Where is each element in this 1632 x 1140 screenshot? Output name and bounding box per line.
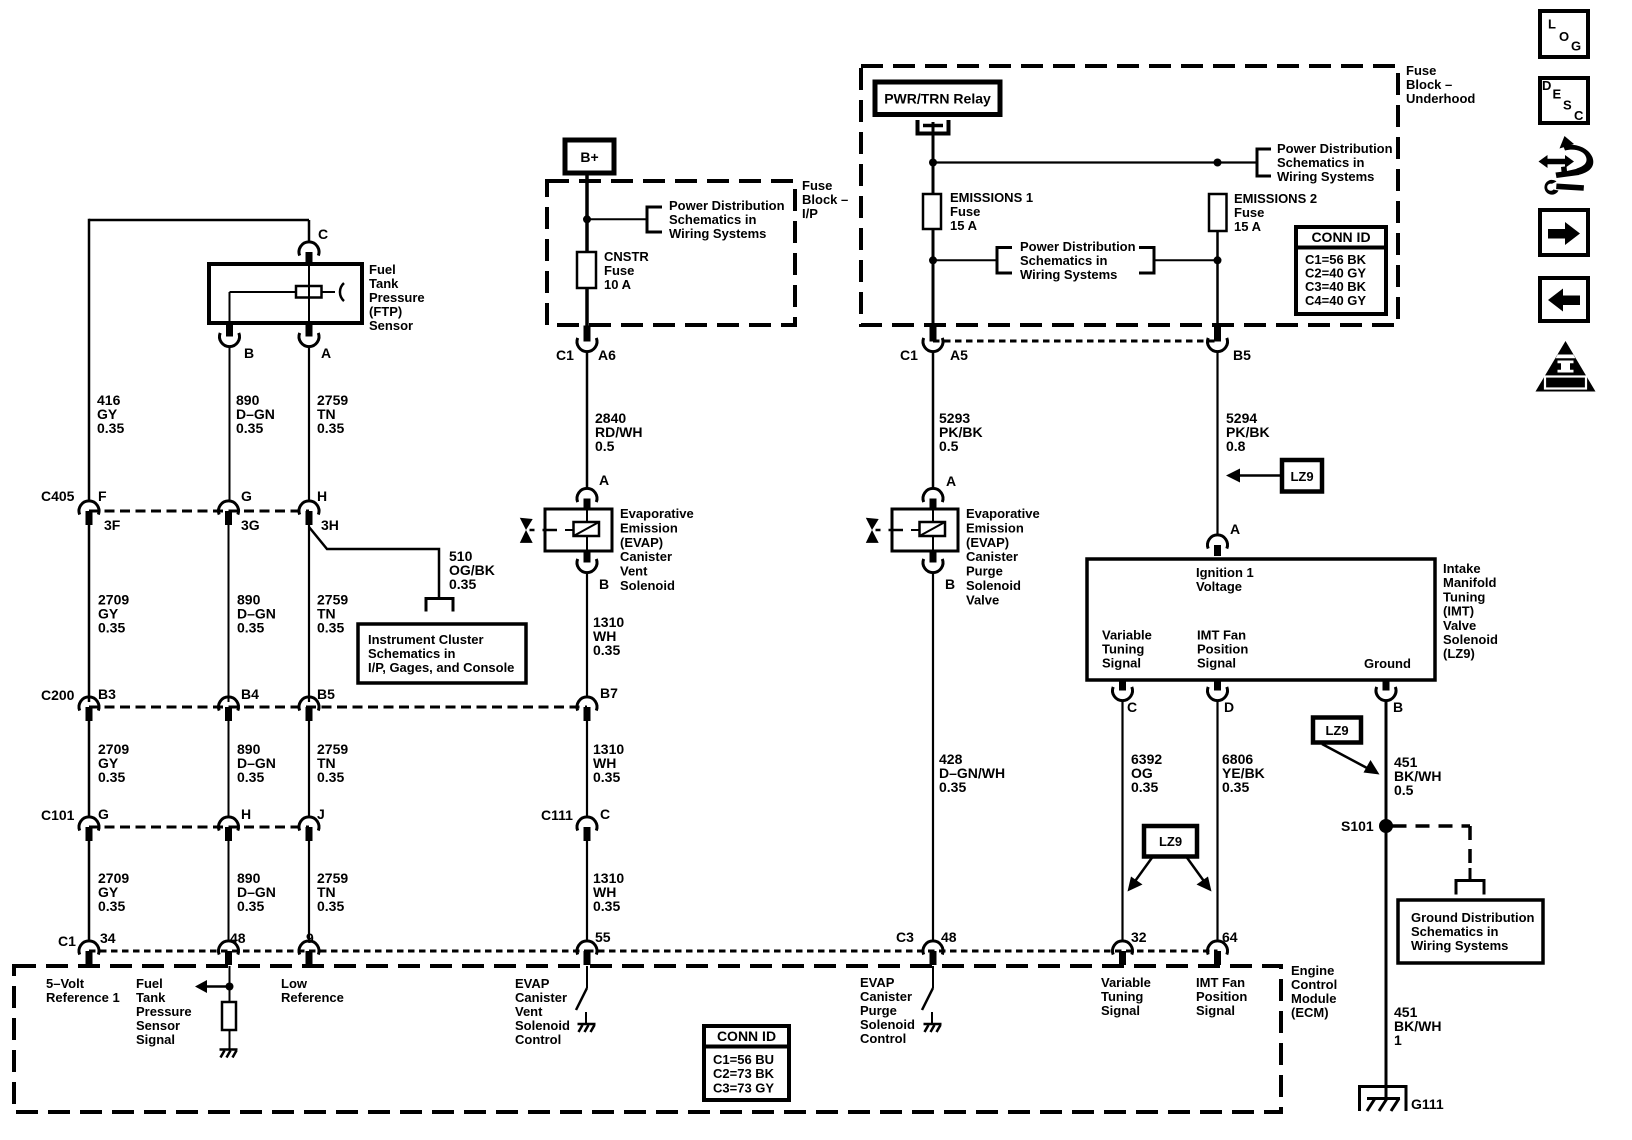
svg-text:EVAP: EVAP [515, 976, 550, 991]
wire 416 GY left vertical [88, 219, 91, 501]
svg-text:Canister: Canister [515, 990, 567, 1005]
svg-text:C200: C200 [41, 687, 75, 703]
svg-text:Solenoid: Solenoid [1443, 632, 1498, 647]
svg-text:Fuse: Fuse [802, 178, 832, 193]
icon LOG [1540, 11, 1588, 57]
wire 2759 TN row3 [308, 721, 310, 817]
power distribution bracket mid right [1139, 248, 1154, 274]
wire 890 D-GN from pin B [229, 346, 231, 501]
svg-text:Engine: Engine [1291, 963, 1334, 978]
node G connector [219, 501, 239, 515]
wire 1310 WH row3 [586, 841, 588, 941]
svg-text:0.35: 0.35 [237, 898, 264, 914]
wire 416 GY top horizontal segment [89, 219, 309, 222]
svg-text:EMISSIONS 1: EMISSIONS 1 [950, 190, 1033, 205]
vent control ground [578, 1023, 596, 1026]
svg-text:Solenoid: Solenoid [860, 1017, 915, 1032]
vent control switch [586, 966, 588, 988]
svg-text:Control: Control [515, 1032, 561, 1047]
svg-text:9: 9 [306, 930, 314, 946]
svg-text:Vent: Vent [515, 1004, 543, 1019]
FTP sensor wiper contact arc [340, 283, 344, 301]
node D connector IMT [1208, 687, 1228, 701]
svg-text:B7: B7 [600, 685, 618, 701]
wire CNSTR fuse to connector [585, 288, 589, 327]
CONN ID table underhood [1296, 227, 1386, 314]
svg-text:OBD II: OBD II [1549, 378, 1581, 390]
svg-text:A: A [599, 472, 609, 488]
svg-text:Tuning: Tuning [1101, 989, 1143, 1004]
svg-text:Wiring Systems: Wiring Systems [1277, 169, 1374, 184]
svg-text:H: H [317, 488, 327, 504]
svg-text:B3: B3 [98, 686, 116, 702]
icon arrow left [1540, 278, 1588, 321]
svg-text:C3: C3 [896, 929, 914, 945]
node B4 connector [218, 697, 238, 711]
EVAP vent valve symbol [520, 518, 533, 530]
ground distribution note box [1398, 900, 1543, 963]
wire relay to emissions1 [932, 122, 935, 194]
wire 2759 TN from pin A [308, 346, 310, 501]
wire 2759 TN row2 [308, 525, 310, 702]
FTP sensor box [209, 264, 362, 323]
LZ9 arrow right mid [1187, 857, 1207, 884]
svg-text:(EVAP): (EVAP) [620, 535, 663, 550]
node junction B+ distribution [583, 215, 591, 223]
connector C1 dotted line [89, 950, 587, 953]
svg-text:Variable: Variable [1101, 975, 1151, 990]
svg-text:Wiring Systems: Wiring Systems [1020, 267, 1117, 282]
svg-text:Schematics in: Schematics in [1020, 253, 1107, 268]
node C1/A5 connector [923, 338, 943, 352]
LZ9 callout box mid [1144, 826, 1197, 857]
svg-text:B: B [599, 576, 609, 592]
svg-text:0.35: 0.35 [237, 769, 264, 785]
wire 2840 RD/WH [586, 351, 589, 488]
node junction power distribution mid [929, 256, 937, 264]
svg-text:C: C [1574, 108, 1584, 123]
svg-text:34: 34 [100, 930, 116, 946]
ECM dashed box [14, 966, 1281, 1112]
svg-text:Reference: Reference [281, 990, 344, 1005]
power distribution bracket mid left [997, 248, 1012, 274]
svg-text:Block –: Block – [802, 192, 848, 207]
node B5 connector [299, 697, 319, 711]
svg-text:Emission: Emission [966, 520, 1024, 535]
svg-text:A6: A6 [598, 347, 616, 363]
svg-text:Ignition 1: Ignition 1 [1196, 565, 1254, 580]
node 34 connector [79, 941, 99, 955]
svg-text:Control: Control [1291, 977, 1337, 992]
svg-text:Signal: Signal [1197, 656, 1236, 671]
svg-text:LZ9: LZ9 [1290, 469, 1313, 484]
svg-text:Signal: Signal [1196, 1003, 1235, 1018]
svg-text:0.35: 0.35 [1131, 779, 1158, 795]
svg-text:Power Distribution: Power Distribution [1020, 239, 1136, 254]
purge control ground [924, 1023, 942, 1026]
svg-text:Schematics in: Schematics in [669, 212, 756, 227]
svg-text:Vent: Vent [620, 564, 648, 579]
svg-text:Power Distribution: Power Distribution [1277, 141, 1393, 156]
fuse block I/P dashed box [547, 181, 795, 325]
node C111 connector [577, 817, 597, 831]
S101 dashed branch [1393, 824, 1471, 828]
svg-text:Evaporative: Evaporative [966, 506, 1040, 521]
svg-text:0.35: 0.35 [317, 619, 344, 635]
svg-text:0.35: 0.35 [317, 420, 344, 436]
node C1/A6 connector [577, 338, 597, 352]
svg-text:A5: A5 [950, 347, 968, 363]
node B7 connector [577, 697, 597, 711]
svg-text:0.5: 0.5 [595, 438, 615, 454]
node S101 [1379, 819, 1393, 833]
svg-text:D: D [1542, 78, 1551, 93]
svg-text:LZ9: LZ9 [1159, 834, 1182, 849]
node C connector IMT [1113, 687, 1133, 701]
icon OBD II triangle [1536, 341, 1596, 392]
EMISSIONS 1 fuse [923, 194, 941, 229]
connector C200 dashed line [89, 706, 587, 709]
svg-text:Canister: Canister [860, 989, 912, 1004]
svg-text:Fuse: Fuse [1406, 63, 1436, 78]
icon arrow right [1540, 210, 1588, 255]
svg-text:A: A [321, 345, 331, 361]
svg-text:Instrument Cluster: Instrument Cluster [368, 632, 484, 647]
svg-text:3F: 3F [104, 517, 121, 533]
power distribution bracket underhood top [1257, 149, 1271, 176]
svg-text:C2=73 BK: C2=73 BK [713, 1066, 775, 1081]
svg-text:B4: B4 [241, 686, 259, 702]
svg-text:0.35: 0.35 [593, 898, 620, 914]
svg-text:Signal: Signal [136, 1032, 175, 1047]
wire 890 D-GN row3 [228, 721, 230, 817]
ground G111 symbol [1360, 1087, 1407, 1112]
svg-text:G: G [98, 806, 109, 822]
svg-text:0.35: 0.35 [1222, 779, 1249, 795]
svg-text:E: E [1553, 87, 1562, 102]
LZ9 arrow left mid [1133, 857, 1153, 884]
svg-text:(FTP): (FTP) [369, 304, 402, 319]
wire 2709 GY row2 [88, 525, 91, 702]
LZ9 callout box right [1282, 460, 1322, 492]
node H connector [299, 501, 319, 515]
svg-text:Valve: Valve [966, 592, 999, 607]
connector row A5-B5 dotted line [933, 340, 1218, 343]
wire emissions1 to connector [932, 229, 935, 327]
svg-text:0.35: 0.35 [237, 619, 264, 635]
svg-text:Schematics in: Schematics in [1411, 924, 1498, 939]
node A connector IMT [1208, 535, 1228, 549]
svg-text:B: B [1393, 699, 1403, 715]
node B5u connector [1208, 338, 1228, 352]
svg-text:0.35: 0.35 [98, 769, 125, 785]
svg-text:0.8: 0.8 [1226, 438, 1246, 454]
svg-text:0.35: 0.35 [98, 898, 125, 914]
wire 6806 YE/BK [1216, 700, 1218, 941]
svg-text:CONN ID: CONN ID [717, 1028, 776, 1044]
node 64 connector [1208, 941, 1228, 955]
wire 890 D-GN row2 [228, 525, 230, 702]
svg-text:Control: Control [860, 1031, 906, 1046]
svg-text:H: H [241, 806, 251, 822]
svg-text:G: G [241, 488, 252, 504]
wire to power distribution bracket [587, 218, 647, 220]
svg-text:B+: B+ [580, 149, 598, 165]
FTP signal arrow [205, 985, 230, 988]
svg-text:EMISSIONS 2: EMISSIONS 2 [1234, 191, 1317, 206]
svg-text:32: 32 [1131, 929, 1147, 945]
node C connector of FTP sensor [299, 242, 319, 256]
node F connector [79, 501, 99, 515]
svg-text:48: 48 [941, 929, 957, 945]
wire 2709 GY row4 [88, 841, 91, 941]
svg-text:Fuel: Fuel [136, 976, 163, 991]
svg-text:C111: C111 [541, 807, 573, 823]
svg-text:Fuel: Fuel [369, 262, 396, 277]
node 48b connector [923, 941, 943, 955]
node B connector IMT [1376, 687, 1396, 701]
svg-text:Tuning: Tuning [1443, 589, 1485, 604]
svg-text:Valve: Valve [1443, 618, 1476, 633]
purge control switch [932, 966, 934, 988]
svg-text:Ground Distribution: Ground Distribution [1411, 910, 1535, 925]
svg-text:0.5: 0.5 [939, 438, 959, 454]
svg-text:G111: G111 [1411, 1096, 1444, 1112]
FTP sensor internal pin B wire [229, 292, 231, 321]
wire 890 D-GN row4 [228, 841, 230, 941]
svg-text:Module: Module [1291, 991, 1337, 1006]
svg-text:(LZ9): (LZ9) [1443, 646, 1475, 661]
svg-text:15 A: 15 A [950, 218, 978, 233]
EVAP purge valve symbol [866, 518, 879, 530]
wire 2759 TN row4 [308, 841, 310, 941]
svg-text:0.35: 0.35 [449, 576, 476, 592]
FTP signal resistor [222, 1002, 236, 1030]
wire 5294 PK/BK [1216, 351, 1218, 536]
svg-text:CONN ID: CONN ID [1311, 229, 1370, 245]
svg-text:Pressure: Pressure [369, 290, 425, 305]
svg-text:(ECM): (ECM) [1291, 1005, 1329, 1020]
svg-text:48: 48 [230, 930, 246, 946]
branch to instrument cluster [426, 599, 453, 612]
svg-text:Emission: Emission [620, 520, 678, 535]
wire emissions2 down [1216, 231, 1219, 327]
svg-text:Tuning: Tuning [1102, 642, 1144, 657]
svg-text:Low: Low [281, 976, 308, 991]
icon DESC [1540, 78, 1588, 123]
wire 510 OG/BK branch [309, 527, 439, 598]
svg-text:0.35: 0.35 [98, 619, 125, 635]
wire to power distribution bracket underhood top [1218, 161, 1258, 163]
FTP sensor internal wiper wire [308, 266, 310, 321]
wire 1310 WH row2 [586, 721, 588, 817]
wire B+ to CNSTR fuse [585, 173, 589, 252]
svg-text:Solenoid: Solenoid [620, 578, 675, 593]
node B connector purge [923, 559, 943, 573]
svg-text:0.35: 0.35 [939, 779, 966, 795]
svg-text:5–Volt: 5–Volt [46, 976, 85, 991]
icon shortcut [1560, 136, 1575, 149]
EVAP purge solenoid box [892, 509, 958, 551]
connector C101 dashed line [89, 826, 309, 829]
svg-text:Fuse: Fuse [1234, 205, 1264, 220]
svg-text:CNSTR: CNSTR [604, 249, 649, 264]
FTP signal wire [229, 966, 231, 1002]
svg-text:C405: C405 [41, 488, 75, 504]
svg-text:S101: S101 [1341, 818, 1374, 834]
LZ9 arrow ground [1322, 744, 1367, 768]
svg-text:Underhood: Underhood [1406, 91, 1475, 106]
svg-text:C: C [318, 226, 328, 242]
svg-text:D: D [1224, 699, 1234, 715]
svg-text:Wiring Systems: Wiring Systems [669, 226, 766, 241]
svg-text:I/P, Gages, and Console: I/P, Gages, and Console [368, 660, 514, 675]
svg-text:C1=56 BU: C1=56 BU [713, 1052, 774, 1067]
svg-text:Ground: Ground [1364, 656, 1411, 671]
svg-text:64: 64 [1222, 929, 1238, 945]
node junction emissions2 feed [1214, 159, 1222, 167]
pin B connector [220, 333, 240, 347]
node junction relay feed [929, 159, 937, 167]
svg-text:(EVAP): (EVAP) [966, 535, 1009, 550]
svg-text:S: S [1563, 98, 1572, 113]
svg-text:Sensor: Sensor [369, 318, 413, 333]
svg-text:C4=40 GY: C4=40 GY [1305, 293, 1366, 308]
fuse block underhood dashed box [861, 66, 1398, 325]
svg-text:0.35: 0.35 [593, 642, 620, 658]
node 32 connector [1113, 941, 1133, 955]
PWR/TRN relay contact symbol [918, 120, 949, 134]
svg-text:Purge: Purge [860, 1003, 897, 1018]
node 55 connector [577, 941, 597, 955]
svg-text:EVAP: EVAP [860, 975, 895, 990]
svg-text:Solenoid: Solenoid [515, 1018, 570, 1033]
wire 2709 GY row3 [88, 721, 91, 817]
svg-text:Schematics in: Schematics in [368, 646, 455, 661]
CONN ID table bottom [704, 1026, 789, 1100]
svg-text:B: B [945, 576, 955, 592]
LZ9 callout box ground [1313, 718, 1361, 743]
svg-text:Reference 1: Reference 1 [46, 990, 120, 1005]
wire to bracket mid [933, 259, 997, 261]
svg-text:0.5: 0.5 [1394, 782, 1414, 798]
connector C405 dashed line [89, 510, 309, 513]
svg-text:Fuse: Fuse [604, 263, 634, 278]
wire bracket to emissions2 wire [1154, 259, 1218, 261]
node 9 connector [299, 941, 319, 955]
svg-text:55: 55 [595, 929, 611, 945]
svg-text:Signal: Signal [1102, 656, 1141, 671]
svg-text:L: L [1548, 17, 1556, 32]
svg-text:Pressure: Pressure [136, 1004, 192, 1019]
svg-text:Fuse: Fuse [950, 204, 980, 219]
svg-text:Signal: Signal [1101, 1003, 1140, 1018]
wire 451 BK/WH upper [1385, 700, 1388, 1098]
EMISSIONS 2 fuse [1209, 194, 1227, 231]
svg-text:Power Distribution: Power Distribution [669, 198, 785, 213]
svg-text:0.35: 0.35 [97, 420, 124, 436]
PWR/TRN relay box [875, 82, 1000, 115]
svg-text:B: B [244, 345, 254, 361]
instrument cluster note box [358, 624, 526, 683]
svg-text:Position: Position [1196, 989, 1247, 1004]
node A connector purge [923, 488, 943, 502]
svg-text:Voltage: Voltage [1196, 579, 1242, 594]
FTP sensor internal resistor [230, 291, 297, 293]
svg-text:J: J [317, 806, 325, 822]
wire 6392 OG [1121, 700, 1123, 941]
wire 1310 WH row1 [586, 572, 588, 697]
node G2 connector [79, 817, 99, 831]
svg-text:C3=73 GY: C3=73 GY [713, 1080, 774, 1095]
node 48 connector [218, 941, 238, 955]
node junction emissions2 mid [1214, 256, 1222, 264]
svg-text:C1: C1 [556, 347, 574, 363]
svg-text:Tank: Tank [369, 276, 399, 291]
svg-text:C1: C1 [58, 933, 76, 949]
svg-text:C101: C101 [41, 807, 75, 823]
node A connector vent [577, 488, 597, 502]
svg-text:IMT Fan: IMT Fan [1196, 975, 1245, 990]
svg-text:A: A [1230, 521, 1240, 537]
svg-text:Tank: Tank [136, 990, 166, 1005]
svg-text:Evaporative: Evaporative [620, 506, 694, 521]
svg-text:Variable: Variable [1102, 628, 1152, 643]
power distribution bracket I/P [647, 207, 662, 232]
svg-text:0.35: 0.35 [593, 769, 620, 785]
svg-text:Schematics in: Schematics in [1277, 155, 1364, 170]
node J connector [299, 817, 319, 831]
branch to ground distribution [1456, 881, 1484, 895]
svg-text:O: O [1559, 29, 1569, 44]
B+ power feed box [565, 140, 614, 173]
svg-text:LZ9: LZ9 [1325, 723, 1348, 738]
svg-text:Position: Position [1197, 642, 1248, 657]
IMT solenoid box [1087, 559, 1435, 680]
svg-text:F: F [98, 488, 107, 504]
svg-text:0.35: 0.35 [317, 769, 344, 785]
svg-text:IMT Fan: IMT Fan [1197, 628, 1246, 643]
wire 5293 PK/BK [932, 351, 935, 488]
svg-text:Intake: Intake [1443, 561, 1481, 576]
wire 428 D-GN/WH [932, 572, 934, 941]
connector C3 dotted line [587, 950, 1218, 953]
svg-text:C: C [600, 806, 610, 822]
EVAP purge solenoid coil [932, 509, 934, 522]
node H2 connector [218, 817, 238, 831]
CNSTR fuse [577, 252, 596, 288]
svg-text:Manifold: Manifold [1443, 575, 1496, 590]
svg-text:0.35: 0.35 [236, 420, 263, 436]
svg-text:A: A [946, 473, 956, 489]
EVAP vent solenoid coil [586, 509, 588, 522]
svg-text:Canister: Canister [620, 549, 672, 564]
node B3 connector [79, 697, 99, 711]
svg-text:(IMT): (IMT) [1443, 604, 1474, 619]
svg-text:Wiring Systems: Wiring Systems [1411, 938, 1508, 953]
svg-text:B5: B5 [317, 686, 335, 702]
FTP signal ground wire [229, 1030, 231, 1049]
svg-text:Canister: Canister [966, 549, 1018, 564]
svg-text:C: C [1127, 699, 1137, 715]
svg-text:10 A: 10 A [604, 277, 632, 292]
svg-text:Sensor: Sensor [136, 1018, 180, 1033]
svg-text:3H: 3H [321, 517, 339, 533]
node B connector vent [577, 559, 597, 573]
svg-text:PWR/TRN Relay: PWR/TRN Relay [884, 91, 991, 107]
wire relay feed to emissions2 [933, 161, 1218, 163]
svg-text:Block –: Block – [1406, 77, 1452, 92]
